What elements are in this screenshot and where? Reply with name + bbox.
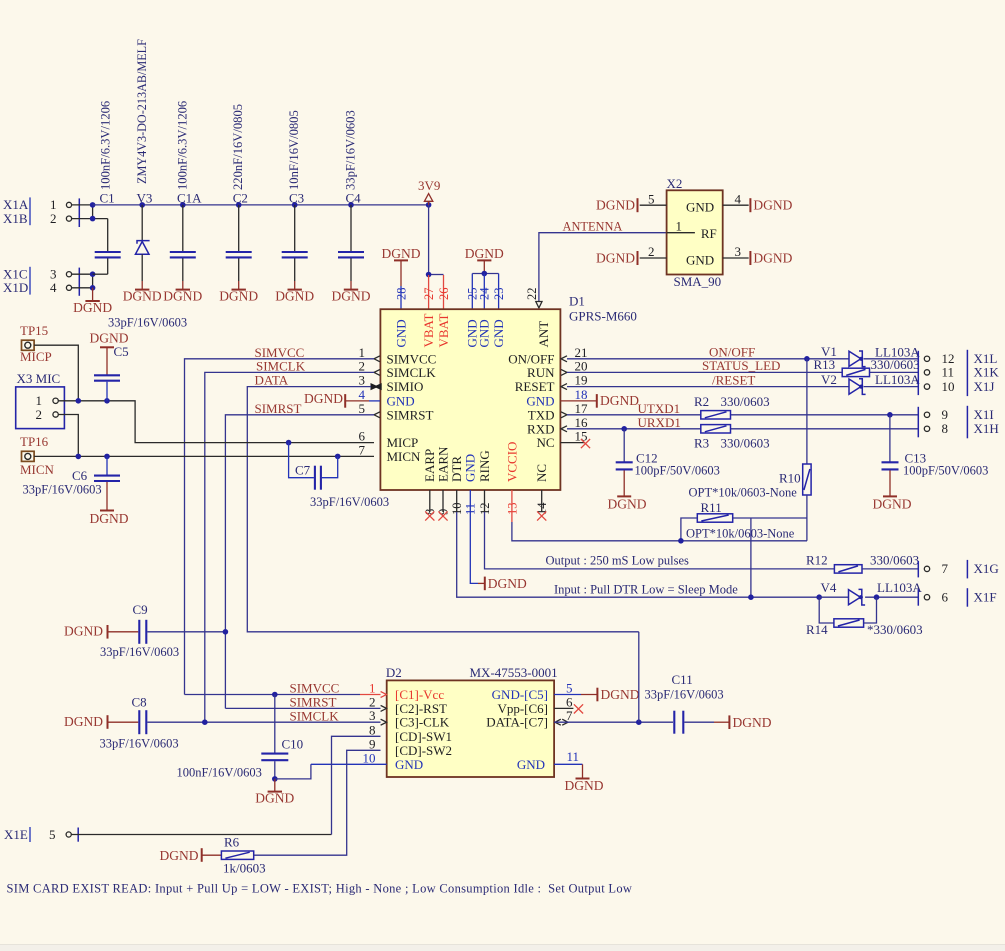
svg-text:TP16: TP16 — [20, 434, 49, 449]
ground DGND pin 28 — [382, 246, 421, 286]
ground DGND under C3 — [275, 281, 314, 303]
capacitor C5 — [90, 316, 188, 401]
net SIMVCC wire — [185, 345, 375, 695]
D1 pin 15 NC stub — [560, 439, 590, 448]
IC D1 GPRS-M660 body — [380, 293, 637, 490]
svg-text:DATA-[C7]: DATA-[C7] — [486, 715, 548, 730]
capacitor C6 — [23, 456, 129, 526]
svg-text:5: 5 — [566, 681, 573, 696]
svg-text:V3: V3 — [137, 191, 153, 206]
svg-text:DGND: DGND — [275, 288, 314, 303]
svg-text:33pF/16V/0603: 33pF/16V/0603 — [344, 110, 358, 190]
svg-text:OPT*10k/0603-None: OPT*10k/0603-None — [689, 486, 798, 500]
net URXD1 wire — [567, 415, 918, 432]
svg-text:LL103A: LL103A — [877, 580, 922, 595]
svg-text:100nF/16V/0603: 100nF/16V/0603 — [177, 766, 262, 780]
svg-text:4: 4 — [50, 280, 57, 295]
net MICN wire — [34, 454, 374, 460]
capacitor C1A — [170, 101, 202, 281]
svg-text:*330/0603: *330/0603 — [867, 622, 923, 637]
svg-text:X1E: X1E — [4, 827, 28, 842]
zener diode V3 — [135, 39, 152, 281]
power port 3V9 — [418, 178, 440, 205]
svg-text:4: 4 — [735, 191, 742, 206]
svg-text:DGND: DGND — [596, 251, 635, 266]
X2 pin 5 — [640, 191, 667, 206]
net DTR-Input wire — [457, 490, 822, 600]
capacitor C8 — [64, 695, 205, 751]
net SIMRST label at D2 — [225, 695, 380, 710]
svg-text:DGND: DGND — [73, 300, 112, 315]
connector X3 MIC — [16, 371, 65, 429]
svg-text:NC: NC — [534, 464, 549, 482]
svg-text:ANTENNA: ANTENNA — [563, 220, 623, 234]
svg-text:X1D: X1D — [3, 280, 28, 295]
port X1D — [3, 280, 72, 295]
ground DGND at X2 pin3 — [750, 251, 792, 266]
ground DGND at X2 pin5 — [596, 198, 638, 213]
svg-text:R14: R14 — [806, 622, 828, 637]
wire R6 to D2 pin 9 — [254, 750, 381, 855]
net /RESET wire — [567, 372, 918, 387]
svg-text:DGND: DGND — [600, 393, 639, 408]
ground DGND at X2 pin2 — [596, 251, 638, 266]
svg-text:SIMCLK: SIMCLK — [290, 708, 340, 723]
wire junction pins 1-2 — [92, 205, 94, 219]
svg-text:8: 8 — [369, 722, 376, 737]
svg-text:6: 6 — [942, 590, 949, 605]
svg-text:[CD]-SW2: [CD]-SW2 — [395, 743, 452, 758]
svg-text:C9: C9 — [133, 602, 148, 617]
svg-text:[C1]-Vcc: [C1]-Vcc — [395, 687, 444, 702]
svg-text:R10: R10 — [779, 470, 801, 485]
svg-text:100pF/50V/0603: 100pF/50V/0603 — [903, 464, 988, 478]
D2 pin 6 Vpp stub — [554, 704, 583, 713]
wire R12 to port 7 — [862, 568, 918, 570]
ground DGND under V3 — [123, 281, 162, 303]
svg-text:2: 2 — [50, 211, 57, 226]
resistor R13 — [814, 357, 920, 377]
ground DGND under C10 — [255, 779, 294, 806]
D1 right pin numbers — [575, 345, 589, 444]
wire R11 to DTR — [750, 518, 752, 597]
svg-text:MICP: MICP — [20, 349, 52, 364]
svg-text:LL103A: LL103A — [875, 372, 920, 387]
svg-text:[C3]-CLK: [C3]-CLK — [395, 715, 450, 730]
capacitor C4 — [338, 110, 364, 281]
svg-text:C1: C1 — [100, 191, 115, 206]
D1 right pin names — [508, 351, 555, 450]
D2 left pin arrows — [381, 692, 387, 726]
svg-text:100nF/6.3V/1206: 100nF/6.3V/1206 — [99, 101, 113, 190]
ground DGND at X2 pin4 — [750, 198, 792, 213]
D2 pin 7 double arrow — [555, 719, 568, 725]
port X1G — [918, 560, 998, 579]
svg-text:7: 7 — [359, 442, 366, 457]
svg-text:SMA_90: SMA_90 — [674, 274, 722, 289]
svg-text:15: 15 — [575, 429, 588, 444]
svg-text:DGND: DGND — [601, 687, 640, 702]
svg-text:7: 7 — [566, 708, 573, 723]
net SIMVCC label at D2 — [185, 681, 381, 698]
svg-text:33pF/16V/0603: 33pF/16V/0603 — [100, 736, 179, 750]
svg-text:R3: R3 — [694, 435, 709, 450]
svg-text:10nF/16V/0805: 10nF/16V/0805 — [287, 110, 301, 190]
svg-text:DGND: DGND — [382, 246, 421, 261]
svg-text:RING: RING — [477, 450, 492, 482]
resistor R2 — [694, 394, 770, 419]
svg-text:X1F: X1F — [974, 590, 997, 605]
svg-text:OPT*10k/0603-None: OPT*10k/0603-None — [686, 527, 795, 541]
svg-text:330/0603: 330/0603 — [871, 357, 920, 372]
net VCCIO wire — [512, 490, 807, 544]
pin 26 VBAT stub — [443, 275, 445, 309]
svg-text:DGND: DGND — [304, 391, 343, 406]
svg-text:DGND: DGND — [753, 198, 792, 213]
wire X1D pin4 — [72, 287, 93, 289]
svg-text:X1K: X1K — [974, 365, 1000, 380]
svg-text:C1A: C1A — [177, 191, 202, 206]
svg-text:TP15: TP15 — [20, 323, 48, 338]
svg-text:DGND: DGND — [465, 246, 504, 261]
svg-text:33pF/16V/0603: 33pF/16V/0603 — [645, 687, 724, 701]
ports X1I X1H — [918, 406, 998, 439]
ground DGND under C1A — [163, 281, 202, 303]
svg-text:33pF/16V/0603: 33pF/16V/0603 — [100, 645, 179, 659]
svg-text:R2: R2 — [694, 394, 709, 409]
svg-text:DGND: DGND — [160, 848, 199, 863]
svg-text:DGND: DGND — [123, 288, 162, 303]
svg-text:1k/0603: 1k/0603 — [223, 861, 266, 876]
svg-text:VBAT: VBAT — [421, 313, 436, 347]
svg-text:RF: RF — [701, 226, 717, 241]
svg-text:MICP: MICP — [387, 435, 419, 450]
D1 left pin arrows — [371, 356, 382, 418]
svg-text:26: 26 — [437, 288, 451, 301]
svg-text:SIMCLK: SIMCLK — [256, 358, 306, 373]
svg-text:C10: C10 — [282, 736, 304, 751]
testpoint TP15 — [20, 323, 52, 364]
svg-text:Output : 250 mS Low pulses: Output : 250 mS Low pulses — [546, 554, 690, 568]
junction dots connector — [90, 202, 96, 291]
net SIMCLK label at D2 — [202, 708, 381, 725]
svg-text:ON/OFF: ON/OFF — [709, 344, 755, 359]
diode V4 value and wire to port 6 — [865, 580, 922, 600]
diode V1 symbol — [849, 351, 866, 367]
svg-text:SIMRST: SIMRST — [290, 695, 337, 710]
svg-text:100pF/50V/0603: 100pF/50V/0603 — [635, 464, 720, 478]
svg-text:SIM CARD EXIST READ: Input + P: SIM CARD EXIST READ: Input + Pull Up = L… — [7, 882, 633, 896]
X2 pin 3 — [723, 244, 749, 259]
svg-text:URXD1: URXD1 — [638, 415, 681, 430]
svg-text:X1H: X1H — [974, 421, 999, 436]
svg-text:DGND: DGND — [64, 624, 103, 639]
capacitor C12 — [608, 429, 720, 512]
svg-text:X1G: X1G — [974, 561, 999, 576]
testpoint TP16 — [20, 434, 55, 477]
net STATUS_LED wire — [567, 358, 918, 373]
svg-text:ANT: ANT — [536, 321, 551, 348]
svg-text:27: 27 — [422, 288, 436, 301]
svg-text:6: 6 — [359, 429, 366, 444]
D1 pin 8 NC stub — [425, 490, 434, 521]
svg-text:23: 23 — [492, 288, 506, 301]
svg-text:GND: GND — [463, 454, 478, 482]
svg-text:28: 28 — [394, 288, 408, 301]
svg-text:R11: R11 — [701, 500, 722, 515]
net MICP wire — [58, 398, 374, 445]
ground DGND under C2 — [219, 281, 258, 303]
svg-text:33pF/16V/0603: 33pF/16V/0603 — [310, 495, 389, 509]
svg-text:C7: C7 — [295, 462, 311, 477]
port X1A — [3, 197, 72, 225]
svg-text:2: 2 — [369, 694, 376, 709]
ground DGND at D1 pin 11 — [470, 490, 527, 591]
svg-text:SIMRST: SIMRST — [387, 407, 434, 422]
svg-text:24: 24 — [478, 287, 492, 300]
svg-text:18: 18 — [575, 387, 588, 402]
svg-text:DGND: DGND — [163, 288, 202, 303]
svg-text:GND: GND — [686, 200, 714, 215]
svg-text:GND: GND — [526, 393, 554, 408]
pin 27 VBAT stub — [428, 275, 430, 309]
svg-text:7: 7 — [942, 561, 949, 576]
svg-text:2: 2 — [36, 407, 43, 422]
ports X1L X1K X1J — [918, 350, 999, 396]
D2 right pin numbers — [566, 681, 579, 764]
D1 pin 14 NC stub — [537, 490, 546, 521]
svg-text:Vpp-[C6]: Vpp-[C6] — [497, 701, 548, 716]
svg-text:Input : Pull DTR Low = Sleep M: Input : Pull DTR Low = Sleep Mode — [554, 583, 738, 597]
svg-text:VBAT: VBAT — [436, 313, 451, 347]
D1 bottom pin labels — [422, 442, 549, 515]
svg-text:RESET: RESET — [515, 379, 555, 394]
port X1E — [4, 827, 78, 842]
wire GND bundle pins 25-24-23 — [472, 271, 498, 309]
svg-text:UTXD1: UTXD1 — [638, 401, 681, 416]
wire TP15 to MICP — [34, 345, 78, 401]
svg-text:X1J: X1J — [974, 379, 995, 394]
svg-text:DGND: DGND — [753, 251, 792, 266]
connector X2 SMA_90 — [667, 176, 723, 289]
svg-text:3: 3 — [359, 373, 366, 388]
svg-text:2: 2 — [359, 358, 366, 373]
wire X3 pin2 to MICN — [58, 415, 78, 457]
svg-text:R13: R13 — [814, 357, 836, 372]
ground DGND under X1D — [73, 288, 112, 315]
net ON/OFF wire — [567, 344, 918, 361]
svg-text:D2: D2 — [386, 665, 402, 680]
svg-text:9: 9 — [369, 736, 376, 751]
svg-text:1: 1 — [369, 681, 376, 696]
svg-text:[C2]-RST: [C2]-RST — [395, 701, 447, 716]
svg-text:DGND: DGND — [608, 496, 647, 511]
svg-text:220nF/16V/0805: 220nF/16V/0805 — [231, 104, 245, 190]
svg-text:1: 1 — [36, 393, 43, 408]
svg-text:330/0603: 330/0603 — [870, 553, 919, 568]
svg-text:6: 6 — [566, 694, 573, 709]
net SIMCLK wire — [205, 358, 374, 722]
svg-text:11: 11 — [567, 749, 580, 764]
ground DGND at D2 pin 5 — [554, 687, 640, 702]
wire X1C pin3 — [72, 273, 93, 275]
X2 pin 1 RF — [667, 219, 695, 234]
D2 left pin numbers — [363, 681, 376, 766]
diode V2 LL103A — [821, 372, 837, 387]
svg-text:100nF/6.3V/1206: 100nF/6.3V/1206 — [175, 101, 189, 190]
svg-text:GND: GND — [395, 757, 423, 772]
D1 left pin names — [387, 351, 437, 464]
svg-text:GND: GND — [686, 253, 714, 268]
svg-text:DGND: DGND — [90, 511, 129, 526]
svg-text:330/0603: 330/0603 — [721, 394, 770, 409]
D1 left pin numbers — [359, 345, 366, 458]
junction dot VBAT — [426, 272, 432, 278]
port X1F — [918, 588, 996, 607]
svg-text:NC: NC — [536, 435, 554, 450]
D2 right pin names — [486, 687, 548, 772]
resistor R6 — [221, 834, 265, 875]
svg-text:C4: C4 — [346, 191, 362, 206]
svg-text:DATA: DATA — [255, 372, 289, 387]
svg-text:DGND: DGND — [873, 496, 912, 511]
svg-text:C5: C5 — [114, 344, 129, 359]
svg-text:11: 11 — [942, 365, 955, 380]
svg-text:V2: V2 — [821, 372, 837, 387]
net DATA wire at D2 pin 7 — [554, 632, 673, 725]
svg-text:3: 3 — [369, 708, 376, 723]
resistor R14 — [806, 597, 923, 637]
pin 28 GND stub — [400, 286, 402, 309]
capacitor C13 — [873, 415, 989, 512]
svg-text:SIMIO: SIMIO — [387, 379, 424, 394]
svg-text:5: 5 — [648, 191, 655, 206]
svg-text:5: 5 — [49, 827, 56, 842]
svg-text:R12: R12 — [806, 553, 828, 568]
svg-text:VCCIO: VCCIO — [504, 442, 519, 482]
D1 right pin arrows — [561, 356, 567, 432]
svg-text:X1I: X1I — [974, 407, 994, 422]
svg-text:C2: C2 — [233, 191, 248, 206]
svg-text:16: 16 — [575, 415, 589, 430]
svg-text:DGND: DGND — [596, 198, 635, 213]
svg-text:TXD: TXD — [528, 407, 555, 422]
svg-text:GND: GND — [393, 319, 408, 347]
svg-text:9: 9 — [942, 407, 949, 422]
wire X1A pin1 to junction — [72, 204, 93, 206]
svg-text:DGND: DGND — [219, 288, 258, 303]
ground DGND at D2 pin 11 — [554, 764, 604, 793]
svg-text:8: 8 — [942, 421, 949, 436]
svg-text:[CD]-SW1: [CD]-SW1 — [395, 729, 452, 744]
resistor R11 — [681, 500, 807, 541]
svg-text:D1: D1 — [569, 293, 585, 308]
wire junction pins 3-4 — [92, 274, 94, 288]
svg-text:GND: GND — [517, 757, 545, 772]
svg-text:33pF/16V/0603: 33pF/16V/0603 — [23, 482, 102, 496]
ground DGND pins 25-24-23 — [465, 246, 504, 273]
svg-text:GND: GND — [477, 319, 492, 347]
ground DGND under C4 — [332, 281, 371, 303]
capacitor C9 — [64, 602, 228, 659]
resistor R3 — [694, 425, 770, 451]
svg-text:17: 17 — [575, 401, 589, 416]
wire 3V9 rail — [93, 204, 429, 206]
net DATA wire — [247, 372, 639, 631]
svg-text:20: 20 — [575, 358, 588, 373]
connector tick marks — [78, 198, 80, 295]
net ANTENNA wire — [536, 220, 695, 308]
svg-text:GND: GND — [491, 319, 506, 347]
svg-text:GND-[C5]: GND-[C5] — [492, 687, 548, 702]
D1 pin 9 NC stub — [438, 490, 447, 521]
junction dots on rail — [139, 202, 431, 208]
svg-text:2: 2 — [648, 244, 655, 259]
svg-text:C8: C8 — [132, 695, 147, 710]
svg-text:3V9: 3V9 — [418, 178, 440, 193]
port X1C — [3, 266, 72, 294]
svg-text:DGND: DGND — [733, 715, 772, 730]
svg-text:GPRS-M660: GPRS-M660 — [569, 308, 637, 323]
svg-text:10: 10 — [942, 379, 955, 394]
capacitor C1 — [93, 101, 121, 274]
diode V2 symbol — [849, 379, 866, 395]
svg-text:33pF/16V/0603: 33pF/16V/0603 — [108, 316, 187, 330]
ground DGND at R6 — [160, 848, 222, 863]
svg-text:ZMY4V3-DO-213AB/MELF: ZMY4V3-DO-213AB/MELF — [135, 39, 149, 184]
svg-text:X3 MIC: X3 MIC — [17, 371, 61, 386]
X2 pin 4 — [723, 191, 749, 206]
svg-text:4: 4 — [359, 387, 366, 402]
net SIMRST wire — [225, 401, 374, 709]
svg-text:DGND: DGND — [255, 790, 294, 805]
svg-text:330/0603: 330/0603 — [721, 435, 770, 450]
X2 pin 2 — [640, 244, 667, 259]
svg-text:DGND: DGND — [565, 778, 604, 793]
svg-text:/RESET: /RESET — [712, 372, 755, 387]
ground DGND at D1 pin 4 — [304, 391, 380, 408]
capacitor C7 — [289, 443, 390, 509]
D2 left pin names — [395, 687, 452, 772]
svg-text:X2: X2 — [667, 176, 683, 191]
svg-text:X1B: X1B — [3, 211, 28, 226]
svg-text:C11: C11 — [672, 672, 693, 687]
port X1B — [3, 211, 72, 226]
net RING-Output wire — [485, 490, 835, 569]
D1 top pin labels — [393, 287, 551, 348]
svg-text:C3: C3 — [289, 191, 304, 206]
diode V4 symbol — [849, 589, 866, 605]
diode V4 LL103A — [819, 580, 848, 597]
svg-text:1: 1 — [676, 219, 683, 234]
svg-text:10: 10 — [363, 750, 376, 765]
svg-text:19: 19 — [575, 373, 588, 388]
capacitor C2 — [226, 104, 252, 281]
net UTXD1 wire — [567, 401, 918, 418]
svg-text:GND: GND — [387, 393, 415, 408]
ground DGND at D1 pin 18 — [560, 393, 639, 408]
svg-text:DGND: DGND — [488, 576, 527, 591]
svg-text:C6: C6 — [72, 468, 88, 483]
capacitor C10 — [177, 695, 304, 782]
wire X1B pin2 to C1 — [72, 218, 108, 220]
IC D2 MX-47553-0001 body — [386, 665, 558, 777]
svg-text:MX-47553-0001: MX-47553-0001 — [470, 665, 558, 680]
svg-text:3: 3 — [735, 244, 742, 259]
wire 3V9 to VBAT pins — [428, 205, 430, 275]
svg-text:SIMRST: SIMRST — [255, 401, 302, 416]
svg-text:MICN: MICN — [20, 462, 55, 477]
